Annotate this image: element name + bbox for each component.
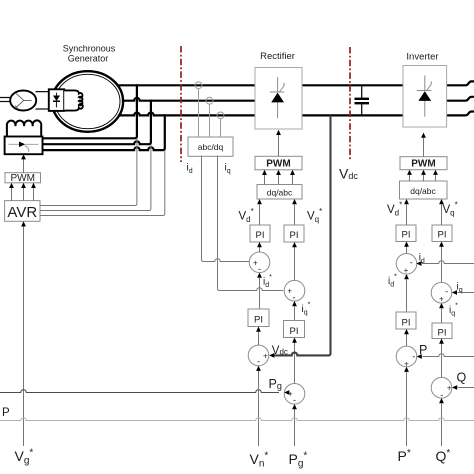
wire bus phase C (generator to rectifier) (119, 113, 255, 116)
svg-text:+: + (447, 384, 452, 393)
svg-text:-: - (258, 264, 261, 274)
wire AVR voltage sense phase B (40, 144, 151, 210)
wire inverter output phase C with edge jog (447, 112, 474, 116)
block PWM rectifier (255, 156, 302, 170)
svg-text:PWM: PWM (266, 159, 290, 170)
summer S7 P loop (396, 346, 417, 367)
block abc/dq current transform (188, 137, 233, 156)
wire bottom gray boundary line (0, 418, 474, 421)
wire exciter tap drop phase B (43, 101, 151, 145)
svg-text:dq/abc: dq/abc (267, 187, 293, 197)
wire AVR to PWM arrow 2 (23, 187, 25, 200)
red dash-dot boundary line left (180, 46, 182, 162)
svg-text:abc/dq: abc/dq (198, 142, 224, 152)
svg-text:PI: PI (438, 230, 447, 241)
wire summer S6 to PI (441, 246, 443, 282)
summer S1 id loop (rectifier) (249, 252, 270, 273)
block PI controller P loop (396, 312, 416, 329)
exciter field coil L2 (7, 120, 41, 136)
wire PI to dq/abc q-axis (294, 205, 296, 226)
svg-text:PI: PI (402, 230, 411, 241)
svg-text:AVR: AVR (7, 204, 37, 221)
wire summer S4 to PI Pg (294, 342, 296, 383)
exciter converter block with IGBT Q1 (5, 137, 43, 155)
wire PI to dq/abc inverter d-axis (406, 205, 408, 226)
svg-text:Inverter: Inverter (406, 52, 438, 63)
synchronous generator G1 (stator circles) (52, 71, 123, 132)
wire dq/abc to PWM inverter arrow 3 (435, 175, 437, 181)
wire AVR voltage sense phase A (40, 138, 137, 205)
wire inverter output phase A with edge jog (447, 81, 474, 85)
svg-text:-: - (445, 286, 448, 296)
wire DC link negative rail (302, 114, 403, 116)
inverter thyristor symbol (417, 76, 432, 117)
block PWM inverter (400, 157, 447, 170)
block PI controller d-axis voltage (rectifier) (250, 225, 270, 242)
wire P measured from right edge into summer S7 (423, 354, 474, 357)
wire AVR to PWM arrow 1 (11, 187, 13, 200)
red dash-dot boundary line right (349, 47, 351, 160)
svg-text:-: - (257, 357, 260, 367)
wire PWM to exciter with arrow (23, 159, 25, 173)
wire bus phase A (generator to rectifier) (118, 84, 255, 86)
svg-text:-: - (440, 390, 443, 400)
wire dq/abc to PWM arrow 3 (292, 175, 294, 185)
wire id* from PI up into summer S1 (259, 278, 261, 309)
wire Q measured from right edge into summer S8 (458, 387, 474, 389)
wire summer S2 to PI (294, 247, 296, 281)
wire iq* from PI up into summer S2 (294, 307, 296, 321)
svg-text:PWM: PWM (411, 159, 435, 170)
svg-text:PI: PI (256, 230, 265, 241)
wire id* reference into summer S5 (406, 280, 408, 312)
wire dq/abc to PWM inverter arrow 1 (409, 175, 411, 181)
rectifier thyristor symbol (270, 77, 285, 118)
svg-text:+: + (263, 351, 268, 360)
svg-text:-: - (292, 292, 295, 302)
svg-text:PWM: PWM (10, 173, 34, 184)
wire shaft from frame to prime mover (0, 98, 11, 102)
svg-text:-: - (293, 395, 296, 405)
svg-text:Synchronous: Synchronous (63, 44, 116, 54)
wire AVR to PWM arrow 3 (33, 187, 35, 200)
wire summer S5 to PI (406, 246, 408, 253)
wire PI to dq/abc d-axis (259, 205, 261, 226)
rectifier converter U1 (255, 68, 302, 130)
block dq/abc inverter (400, 181, 448, 199)
svg-text:+: + (439, 295, 444, 304)
rotating rectifier diode D1 (49, 89, 64, 111)
wire summer S8 to PI Q (441, 343, 443, 377)
block PWM exciter (5, 173, 41, 183)
field winding coil L1 (64, 90, 83, 110)
svg-text:+: + (404, 266, 409, 275)
wire exciter tap drop phase C (43, 115, 165, 150)
block PI controller Q loop (432, 323, 452, 339)
svg-text:dq/abc: dq/abc (410, 186, 436, 196)
wire summer S1 to PI (259, 247, 261, 252)
wire dq/abc to PWM arrow 2 (278, 175, 280, 185)
summer S3 Vdc loop (248, 345, 269, 366)
block PI controller q-axis voltage (inverter) (432, 225, 452, 242)
svg-text:Rectifier: Rectifier (260, 51, 295, 62)
svg-text:PI: PI (290, 230, 299, 241)
wire id from abc/dq to summer S1 (202, 156, 250, 262)
svg-text:PI: PI (438, 328, 447, 339)
prime mover PM1 (turbine) (10, 91, 36, 111)
wire PI to dq/abc inverter q-axis (441, 205, 443, 226)
wire Vg* reference into AVR (23, 226, 25, 446)
wire PWM to inverter with arrow (423, 138, 425, 157)
block PI controller Pg loop (284, 321, 305, 338)
summer S5 id loop (inverter) (396, 253, 417, 274)
block PI controller d-axis voltage (inverter) (396, 225, 416, 242)
svg-text:PI: PI (402, 318, 411, 329)
current sensor tap node phase A (195, 82, 202, 89)
wire AVR voltage sense phase C (40, 150, 165, 215)
wire coupling prime mover to rotating rectifier (36, 92, 50, 109)
current sensor tap node phase C (217, 112, 224, 119)
current sensor tap node phase B (206, 97, 213, 104)
wire Vdc feedback from DC rail to summer S3 (274, 115, 331, 355)
wire id measured from right edge into summer S5 (422, 261, 474, 264)
inverter converter U2 (403, 66, 447, 128)
summer S8 Q loop (431, 377, 452, 398)
wire inverter output phase B with edge jog (447, 97, 474, 101)
wire P feedback line from left edge to summer S4 (0, 390, 279, 393)
svg-text:Q: Q (457, 371, 467, 385)
svg-text:Generator: Generator (68, 54, 109, 64)
summer S4 Pg loop (284, 384, 305, 405)
wire dq/abc to PWM arrow 1 (264, 175, 266, 185)
wire Vn* reference up to summer S3 (258, 371, 260, 446)
wire exciter tap drop phase A (43, 85, 137, 138)
wire Q* reference up to summer S8 (441, 403, 443, 446)
block AVR (5, 201, 40, 222)
wire DC link positive rail (302, 84, 403, 86)
block PI controller q-axis voltage (rectifier) (284, 225, 304, 242)
wire summer S7 to PI P (406, 334, 408, 346)
svg-text:PI: PI (290, 326, 299, 337)
wire summer S3 to PI Vdc (258, 331, 260, 345)
wire Pg* reference up to summer S4 (294, 409, 296, 446)
capacitor C1 DC link (355, 85, 370, 115)
svg-text:P: P (2, 407, 10, 419)
svg-text:-: - (410, 258, 413, 268)
block dq/abc rectifier (257, 185, 302, 200)
wire dq/abc to PWM inverter arrow 2 (423, 175, 425, 181)
wire P* reference up to summer S7 (406, 372, 408, 446)
summer S6 iq loop (inverter) (431, 282, 452, 303)
svg-text:-: - (412, 351, 415, 361)
svg-text:PI: PI (254, 315, 263, 326)
wire iq measured from right edge into summer S6 (458, 292, 474, 294)
wire PWM to rectifier with arrow (278, 135, 280, 156)
wire bus phase B (generator to rectifier) (123, 98, 255, 101)
summer S2 iq loop (rectifier) (284, 280, 305, 301)
block PI controller Vdc loop (248, 309, 269, 327)
wire iq from abc/dq to summer S2 (218, 156, 284, 291)
wire iq* reference into summer S6 (441, 309, 443, 324)
